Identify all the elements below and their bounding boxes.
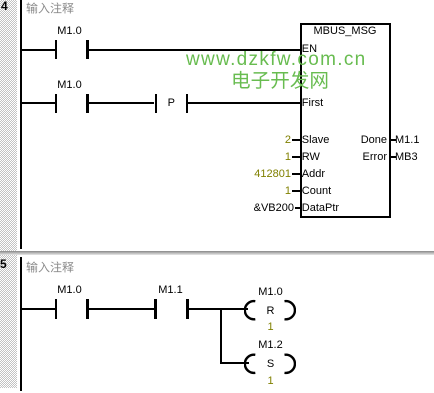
contact M1.0 (network 4 row 1) bbox=[55, 40, 58, 60]
network 5 comment 输入注释 bbox=[26, 261, 74, 273]
network number 5 bbox=[0, 259, 7, 270]
watermark www.dzkfw.com.cn bbox=[186, 50, 367, 69]
label M1.1 network5 bbox=[155, 285, 186, 296]
value 412801 (Addr) bbox=[230, 169, 291, 180]
branch wire to coil S bbox=[220, 362, 249, 364]
coil M1.0 (R) parentheses bbox=[244, 296, 296, 324]
value 1 (Count) bbox=[230, 186, 291, 197]
coil letter S bbox=[261, 359, 280, 370]
network number 4 bbox=[1, 1, 8, 12]
block title MBUS_MSG bbox=[300, 26, 391, 37]
contact M1.0 (network 5) bbox=[55, 299, 58, 319]
pin label DataPtr bbox=[302, 203, 339, 214]
label P bbox=[157, 98, 186, 109]
positive edge contact P bbox=[155, 94, 158, 114]
pin stub Done bbox=[391, 139, 396, 141]
value &VB200 (DataPtr) bbox=[233, 203, 294, 214]
wire rail to contact M1.0 row1 bbox=[21, 49, 55, 51]
label M1.0 network5 bbox=[52, 285, 87, 296]
left power rail network 5 bbox=[20, 257, 22, 391]
output operand M1.1 bbox=[395, 135, 419, 146]
pin label Slave bbox=[302, 135, 330, 146]
left power rail network 4 bbox=[20, 0, 22, 249]
pin label First bbox=[302, 98, 323, 109]
pin label Done bbox=[330, 135, 387, 146]
label M1.0 coil bbox=[253, 287, 288, 298]
value 1 under R coil bbox=[261, 322, 280, 333]
pin label Addr bbox=[302, 169, 325, 180]
wire rail to contact M1.0 row2 bbox=[21, 102, 55, 104]
wire P contact to block First bbox=[188, 102, 300, 104]
pin stub Slave bbox=[292, 139, 300, 141]
wire contact M1.0 to P contact bbox=[89, 102, 155, 104]
value 2 (Slave) bbox=[230, 135, 291, 146]
pin stub DataPtr bbox=[295, 207, 300, 209]
branch wire vertical bbox=[220, 308, 222, 364]
contact M1.1 (network 5) bbox=[154, 299, 157, 319]
pin label RW bbox=[302, 152, 320, 163]
pin stub RW bbox=[292, 156, 300, 158]
coil M1.2 (S) parentheses bbox=[244, 350, 296, 378]
watermark 电子开发网 bbox=[231, 70, 329, 90]
function block MBUS_MSG bbox=[300, 23, 391, 218]
label M1.0 row1 bbox=[52, 26, 87, 37]
pin stub Error bbox=[391, 156, 396, 158]
pin stub Count bbox=[292, 190, 300, 192]
output operand MB3 bbox=[395, 152, 418, 163]
pin label EN bbox=[302, 44, 317, 55]
label M1.2 coil bbox=[253, 340, 288, 351]
label M1.0 row2 bbox=[52, 80, 87, 91]
network 4 comment 输入注释 bbox=[26, 2, 74, 14]
value 1 (RW) bbox=[230, 152, 291, 163]
wire rail to contact M1.0 network5 bbox=[21, 308, 55, 310]
coil letter R bbox=[261, 306, 280, 317]
pin label Error bbox=[330, 152, 387, 163]
wire contact M1.0 to block EN bbox=[89, 49, 300, 51]
network gutter (dithered) bbox=[0, 0, 17, 388]
contact M1.0 (network 4 row 2) bbox=[55, 94, 58, 114]
pin stub Addr bbox=[292, 173, 300, 175]
value 1 under S coil bbox=[261, 376, 280, 387]
pin label Count bbox=[302, 186, 331, 197]
network separator line bbox=[0, 251, 434, 255]
wire M1.0 to M1.1 network5 bbox=[89, 308, 155, 310]
wire M1.1 to coil R bbox=[189, 308, 249, 310]
